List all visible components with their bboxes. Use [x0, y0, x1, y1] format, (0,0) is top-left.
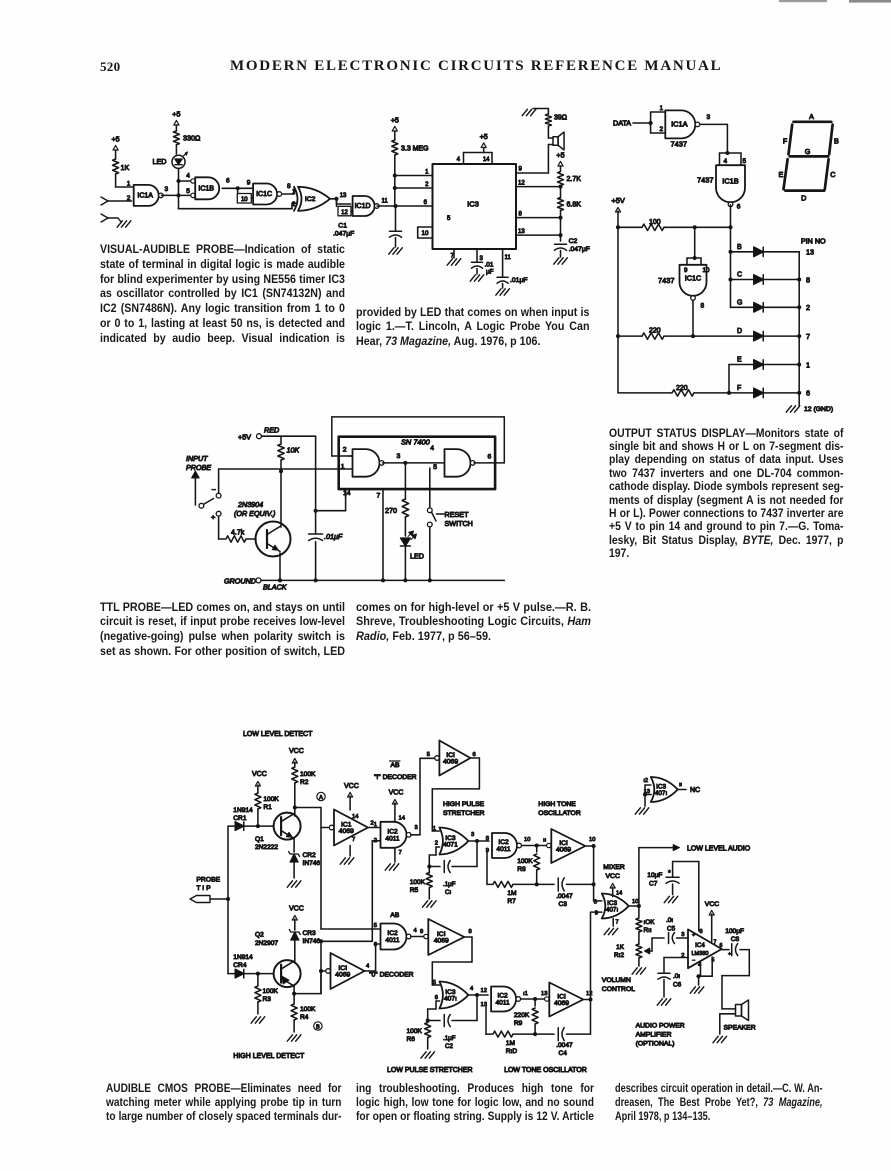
svg-text:CR4: CR4 [233, 962, 247, 969]
svg-text:IC1B: IC1B [722, 177, 739, 186]
svg-text:100K: 100K [410, 879, 426, 886]
svg-text:C2: C2 [445, 1043, 453, 1050]
svg-text:6: 6 [424, 200, 428, 206]
svg-text:14: 14 [352, 814, 359, 820]
svg-text:PIN NO: PIN NO [801, 237, 826, 246]
svg-text:R3: R3 [263, 996, 272, 1003]
svg-text:SN 7400: SN 7400 [401, 438, 431, 447]
svg-text:8: 8 [486, 836, 489, 842]
svg-text:IC1C: IC1C [256, 191, 272, 198]
svg-text:6: 6 [720, 943, 723, 949]
svg-text:E: E [737, 357, 742, 364]
svg-text:5: 5 [374, 923, 377, 929]
svg-text:D: D [801, 194, 806, 203]
svg-text:CR3: CR3 [303, 930, 317, 937]
svg-text:6: 6 [806, 389, 810, 398]
svg-text:LOW LEVEL DETECT: LOW LEVEL DETECT [243, 731, 313, 738]
svg-text:1N914: 1N914 [233, 807, 253, 814]
svg-text:+5: +5 [480, 132, 488, 141]
svg-text:A: A [809, 112, 814, 121]
svg-text:HIGH LEVEL DETECT: HIGH LEVEL DETECT [233, 1053, 305, 1060]
svg-text:.0ı: .0ı [673, 973, 680, 980]
svg-text:4069: 4069 [434, 938, 449, 945]
svg-text:MIXER: MIXER [603, 864, 625, 871]
svg-text:1: 1 [127, 181, 131, 188]
svg-text:12: 12 [518, 181, 525, 187]
svg-text:D: D [737, 328, 742, 335]
svg-text:4: 4 [366, 964, 370, 970]
svg-text:NC: NC [690, 787, 700, 794]
svg-text:.1μF: .1μF [443, 1035, 456, 1042]
svg-text:R1: R1 [263, 804, 272, 811]
svg-text:3: 3 [415, 825, 418, 831]
svg-text:IC4: IC4 [695, 942, 705, 949]
svg-text:STRETCHER: STRETCHER [443, 810, 485, 817]
svg-text:1: 1 [433, 826, 436, 832]
svg-text:8: 8 [806, 275, 810, 284]
svg-text:4: 4 [457, 157, 461, 163]
svg-text:C: C [737, 272, 742, 279]
svg-text:+5V: +5V [611, 196, 624, 205]
svg-text:8: 8 [700, 929, 703, 935]
svg-text:R8: R8 [517, 866, 526, 873]
svg-text:GROUND: GROUND [224, 577, 256, 586]
svg-text:11: 11 [505, 255, 512, 261]
svg-text:6: 6 [737, 204, 741, 211]
svg-text:.047μF: .047μF [333, 231, 354, 238]
svg-text:+5: +5 [172, 110, 180, 119]
svg-text:13: 13 [518, 229, 525, 235]
svg-text:100K: 100K [300, 771, 316, 778]
svg-text:IC1A: IC1A [671, 119, 688, 128]
svg-text:100K: 100K [407, 1028, 423, 1035]
svg-text:HIGH TONE: HIGH TONE [538, 801, 576, 808]
svg-text:IC1B: IC1B [198, 185, 214, 192]
svg-text:8: 8 [469, 929, 472, 935]
svg-text:1N914: 1N914 [233, 954, 253, 961]
svg-text:.01μF: .01μF [324, 532, 343, 541]
svg-text:INPUT: INPUT [186, 454, 208, 463]
svg-text:1: 1 [806, 360, 810, 369]
svg-text:4: 4 [414, 928, 418, 934]
svg-text:PROBE: PROBE [196, 877, 220, 884]
svg-text:R4: R4 [300, 1014, 309, 1021]
svg-text:11: 11 [382, 199, 389, 205]
svg-text:C5: C5 [667, 926, 676, 933]
svg-text:12: 12 [481, 988, 487, 994]
svg-text:ıı: ıı [543, 838, 547, 844]
svg-text:LED: LED [410, 552, 424, 561]
svg-text:B: B [316, 1025, 320, 1031]
svg-text:B: B [737, 244, 742, 251]
svg-text:Rı2: Rı2 [614, 952, 624, 959]
svg-text:1: 1 [425, 170, 429, 176]
svg-text:LOW LEVEL AUDIO: LOW LEVEL AUDIO [687, 846, 751, 853]
svg-text:2: 2 [343, 447, 347, 454]
svg-text:330Ω: 330Ω [183, 134, 201, 143]
svg-text:+5: +5 [556, 151, 564, 160]
svg-text:39Ω: 39Ω [554, 115, 567, 122]
svg-text:1: 1 [374, 822, 377, 828]
svg-text:IC2: IC2 [387, 930, 398, 937]
svg-text:LM380: LM380 [691, 951, 708, 957]
svg-text:IC2: IC2 [305, 196, 316, 203]
svg-text:7: 7 [352, 837, 355, 843]
svg-text:3: 3 [681, 932, 684, 938]
svg-text:3: 3 [707, 114, 711, 121]
svg-text:G: G [737, 299, 742, 306]
svg-text:VCC: VCC [389, 790, 404, 797]
svg-text:8: 8 [287, 183, 291, 190]
svg-text:4069: 4069 [335, 972, 350, 979]
svg-text:VCC: VCC [606, 873, 620, 880]
svg-text:7: 7 [399, 850, 402, 856]
svg-text:−: − [692, 958, 695, 964]
svg-text:1K: 1K [616, 944, 625, 951]
svg-text:12: 12 [586, 991, 592, 997]
svg-text:AUDIO POWER: AUDIO POWER [636, 1023, 685, 1030]
svg-text:+5: +5 [111, 135, 119, 144]
svg-text:100K: 100K [517, 858, 533, 865]
svg-text:5: 5 [186, 188, 190, 195]
svg-text:10K: 10K [287, 446, 301, 455]
svg-text:6: 6 [488, 454, 492, 461]
svg-text:9: 9 [519, 167, 523, 173]
svg-text:13: 13 [541, 991, 547, 997]
svg-text:.0ı: .0ı [666, 917, 673, 924]
svg-text:4069: 4069 [554, 1000, 569, 1007]
svg-text:VCC: VCC [344, 783, 359, 790]
svg-text:+5V: +5V [238, 433, 251, 442]
svg-text:4011: 4011 [385, 835, 400, 842]
svg-text:E: E [779, 170, 784, 179]
svg-text:1: 1 [341, 464, 345, 471]
svg-text:7437: 7437 [697, 176, 713, 185]
svg-text:5: 5 [743, 158, 747, 165]
svg-text:13: 13 [806, 248, 814, 257]
svg-text:6: 6 [473, 752, 476, 758]
svg-text:RıD: RıD [506, 1048, 518, 1055]
svg-text:2N2907: 2N2907 [255, 940, 278, 947]
svg-text:T I P: T I P [196, 885, 211, 892]
svg-text:2N3904: 2N3904 [237, 500, 263, 509]
svg-text:5: 5 [427, 752, 430, 758]
svg-text:1K: 1K [121, 163, 130, 172]
svg-text:LOW TONE OSCILLATOR: LOW TONE OSCILLATOR [504, 1067, 587, 1074]
svg-text:*: * [668, 870, 671, 877]
svg-text:100K: 100K [263, 988, 279, 995]
svg-text:IC1C: IC1C [685, 273, 701, 282]
svg-text:R2: R2 [300, 779, 309, 786]
svg-text:IC2: IC2 [498, 839, 509, 846]
svg-text:6: 6 [226, 178, 230, 185]
svg-text:ıı: ıı [679, 782, 683, 788]
svg-text:PROBE: PROBE [186, 463, 211, 472]
svg-text:HIGH PULSE: HIGH PULSE [443, 801, 485, 808]
svg-text:3: 3 [165, 186, 169, 193]
svg-text:+5: +5 [391, 116, 399, 125]
svg-text:OSCILLATOR: OSCILLATOR [538, 810, 581, 817]
svg-text:1: 1 [660, 105, 664, 112]
svg-text:C2: C2 [569, 238, 578, 245]
svg-text:LOW PULSE STRETCHER: LOW PULSE STRETCHER [387, 1067, 473, 1074]
svg-text:AMPLIFIER: AMPLIFIER [636, 1032, 672, 1039]
svg-text:.01μF: .01μF [510, 277, 528, 284]
svg-text:C7: C7 [649, 881, 658, 888]
svg-text:RED: RED [264, 426, 279, 435]
svg-text:C4: C4 [559, 1050, 568, 1057]
svg-text:14: 14 [343, 490, 351, 497]
svg-text:−: − [212, 485, 217, 494]
svg-text:A: A [319, 795, 323, 801]
svg-text:4069: 4069 [339, 828, 354, 835]
svg-text:4011: 4011 [496, 846, 511, 853]
svg-text:2: 2 [806, 303, 810, 312]
svg-text:+: + [692, 933, 695, 939]
svg-text:.0047: .0047 [556, 1042, 573, 1049]
svg-text:+: + [211, 513, 216, 522]
svg-text:CR1: CR1 [233, 815, 247, 822]
svg-text:R7: R7 [507, 898, 516, 905]
svg-text:3: 3 [397, 453, 401, 460]
svg-text:6: 6 [435, 995, 438, 1001]
svg-text:3: 3 [471, 832, 474, 838]
svg-text:Q2: Q2 [255, 932, 264, 939]
svg-text:R9: R9 [514, 1020, 523, 1027]
svg-text:2: 2 [425, 182, 429, 188]
svg-text:270: 270 [385, 506, 397, 515]
svg-text:VCC: VCC [252, 771, 267, 778]
svg-text:4.7k: 4.7k [231, 530, 245, 537]
svg-text:100μF: 100μF [725, 928, 744, 935]
svg-text:7: 7 [377, 493, 381, 500]
svg-text:2N2222: 2N2222 [255, 844, 278, 851]
svg-text:.0047: .0047 [556, 893, 573, 900]
svg-text:G: G [805, 147, 811, 156]
svg-text:407ı: 407ı [655, 790, 668, 797]
svg-text:"0" DECODER: "0" DECODER [369, 972, 414, 979]
svg-text:4: 4 [430, 445, 434, 452]
svg-text:(OPTIONAL): (OPTIONAL) [636, 1041, 675, 1048]
svg-text:SPEAKER: SPEAKER [724, 1025, 756, 1032]
svg-text:LED: LED [153, 157, 167, 166]
svg-text:1M: 1M [507, 890, 516, 897]
svg-text:5: 5 [433, 464, 437, 471]
svg-text:F: F [783, 137, 788, 146]
svg-text:10μF: 10μF [647, 872, 662, 879]
svg-text:C3: C3 [559, 901, 568, 908]
svg-text:10: 10 [632, 899, 638, 905]
svg-text:7: 7 [616, 920, 619, 926]
svg-text:10: 10 [241, 197, 248, 203]
svg-text:CR2: CR2 [303, 852, 317, 859]
svg-text:ıOK: ıOK [644, 919, 656, 926]
svg-text:14: 14 [399, 816, 406, 822]
svg-text:12: 12 [341, 210, 348, 216]
svg-text:+: + [728, 952, 731, 958]
svg-text:220K: 220K [514, 1012, 530, 1019]
svg-text:4069: 4069 [556, 847, 571, 854]
svg-text:2.7K: 2.7K [567, 176, 582, 183]
svg-text:3.3 MEG: 3.3 MEG [401, 146, 429, 153]
svg-text:5: 5 [433, 980, 436, 986]
svg-text:4011: 4011 [496, 1000, 511, 1007]
svg-text:BLACK: BLACK [263, 583, 288, 592]
svg-text:VCC: VCC [289, 906, 304, 913]
svg-text:IC2: IC2 [387, 828, 398, 835]
svg-text:2: 2 [660, 126, 664, 133]
svg-text:F: F [737, 385, 741, 392]
svg-text:Rıı: Rıı [644, 927, 652, 934]
svg-text:8: 8 [519, 212, 523, 218]
svg-text:5: 5 [447, 216, 451, 222]
svg-text:C6: C6 [673, 982, 682, 989]
svg-text:VCC: VCC [289, 748, 304, 755]
svg-text:ı2: ı2 [643, 778, 648, 784]
svg-text:B: B [834, 137, 839, 146]
svg-text:10: 10 [589, 837, 595, 843]
svg-text:9: 9 [420, 929, 423, 935]
svg-text:10: 10 [524, 837, 530, 843]
svg-text:ı1: ı1 [523, 991, 528, 997]
svg-text:100K: 100K [263, 796, 279, 803]
svg-text:C8: C8 [731, 936, 740, 943]
svg-text:9: 9 [247, 180, 251, 187]
svg-text:7437: 7437 [671, 140, 687, 149]
svg-text:AB: AB [390, 912, 400, 919]
svg-text:IN746: IN746 [303, 860, 321, 867]
svg-text:VCC: VCC [705, 901, 719, 908]
svg-text:3: 3 [480, 256, 484, 262]
svg-text:4071: 4071 [443, 842, 458, 849]
svg-text:407ı: 407ı [444, 996, 457, 1003]
svg-text:"I" DECODER: "I" DECODER [374, 774, 417, 781]
svg-text:12 (GND): 12 (GND) [804, 406, 833, 413]
svg-text:.01: .01 [485, 262, 494, 269]
svg-text:AB: AB [391, 762, 401, 769]
svg-text:(OR EQUIV.): (OR EQUIV.) [234, 509, 275, 518]
svg-text:8: 8 [701, 303, 705, 310]
svg-text:14: 14 [616, 891, 622, 897]
svg-text:CONTROL: CONTROL [602, 986, 635, 993]
svg-text:RESET: RESET [445, 510, 470, 519]
svg-text:R5: R5 [410, 887, 419, 894]
svg-text:4: 4 [470, 986, 474, 992]
svg-text:4069: 4069 [443, 759, 458, 766]
svg-text:4: 4 [186, 173, 190, 180]
svg-text:Q1: Q1 [255, 836, 264, 843]
svg-text:IC1D: IC1D [355, 203, 371, 210]
svg-text:13: 13 [340, 193, 347, 199]
svg-text:IC2: IC2 [497, 993, 508, 1000]
svg-text:IC3: IC3 [467, 200, 479, 209]
svg-text:4: 4 [724, 158, 728, 165]
svg-text:10: 10 [422, 230, 429, 237]
svg-text:2: 2 [435, 841, 438, 847]
svg-text:6.8K: 6.8K [567, 202, 582, 209]
svg-text:IN746: IN746 [303, 938, 321, 945]
svg-text:7: 7 [714, 940, 717, 946]
svg-text:1M: 1M [506, 1040, 515, 1047]
svg-text:2: 2 [127, 195, 131, 202]
svg-text:VOLUMN: VOLUMN [602, 977, 631, 984]
svg-text:4011: 4011 [385, 937, 400, 944]
svg-text:407ı: 407ı [606, 907, 619, 914]
svg-text:SWITCH: SWITCH [445, 519, 473, 528]
svg-text:R6: R6 [407, 1036, 416, 1043]
svg-text:7437: 7437 [658, 276, 674, 285]
svg-text:.047μF: .047μF [569, 246, 590, 253]
svg-text:7: 7 [806, 332, 810, 341]
svg-text:DATA: DATA [613, 119, 631, 128]
svg-text:C: C [830, 170, 835, 179]
svg-text:14: 14 [483, 157, 490, 163]
svg-text:.1μF: .1μF [443, 881, 456, 888]
svg-text:C1: C1 [338, 223, 347, 230]
svg-text:IC1A: IC1A [137, 192, 153, 199]
svg-text:μF: μF [486, 269, 494, 276]
svg-text:Cı: Cı [445, 889, 451, 896]
svg-text:100K: 100K [300, 1006, 316, 1013]
